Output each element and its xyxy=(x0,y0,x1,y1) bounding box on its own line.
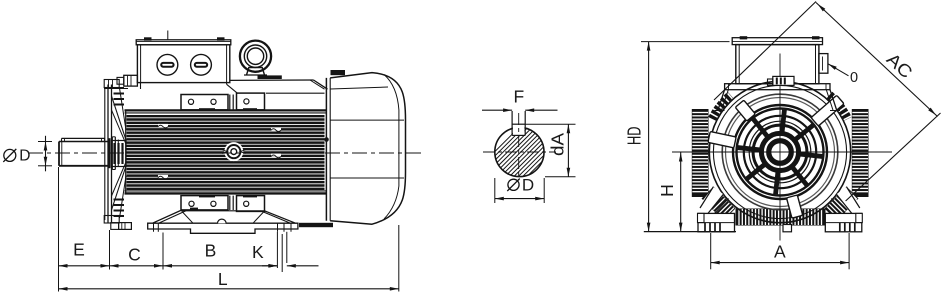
front view: inner grille circles xyxy=(744,116,816,188)
dimension HD xyxy=(625,42,730,232)
dimension AC diagonal xyxy=(714,2,941,202)
svg-text:L: L xyxy=(218,269,228,289)
side view: centre line xyxy=(28,152,424,154)
front view: rim vent band left xyxy=(692,110,708,197)
svg-text:K: K xyxy=(252,242,264,262)
side view: lifting eyebolt xyxy=(240,41,271,75)
front view: left foot gusset xyxy=(698,187,729,214)
front view: shaft circle xyxy=(771,143,790,162)
front view: rim vent band right xyxy=(852,110,868,197)
side view: drive-end bearing shield xyxy=(104,80,126,224)
dimension E xyxy=(59,240,110,268)
extension line shoulder face xyxy=(109,230,111,270)
side view: terminal box xyxy=(136,37,231,82)
side view: fan cover xyxy=(299,70,406,227)
front view: cowl vanes xyxy=(811,95,844,126)
side view: bottom mounting pad with two holes xyxy=(181,195,228,210)
extension line fan cover end xyxy=(398,225,400,292)
front view: rim vent band bottom xyxy=(736,209,825,225)
svg-text:B: B xyxy=(205,240,217,260)
svg-text:E: E xyxy=(73,240,85,260)
side view: central boss on stator xyxy=(222,142,246,161)
section view: keyway slot xyxy=(512,111,525,135)
dimension L xyxy=(59,269,399,291)
extension lines K slot xyxy=(277,232,286,272)
side view: conduit plug on box left xyxy=(117,75,137,86)
dimension C xyxy=(110,244,164,267)
front view: box support brackets xyxy=(715,90,841,111)
front view: left foot xyxy=(698,213,735,231)
front view: hub rings xyxy=(761,133,798,170)
side view: shield foot pad xyxy=(111,223,132,230)
front view: right foot gusset xyxy=(831,187,862,214)
svg-text:A: A xyxy=(774,241,786,261)
extension line foot front xyxy=(162,233,164,270)
side view: top mounting pad with two holes xyxy=(181,95,228,111)
front view: box base plate xyxy=(725,84,830,90)
side view: cable gland plugs on box xyxy=(157,31,211,76)
dimension K xyxy=(252,242,319,268)
side view: fin break marks xyxy=(158,124,281,179)
front view: top centre fitting xyxy=(768,76,795,85)
svg-text:dA: dA xyxy=(548,133,568,156)
front view: bottom centre tab xyxy=(783,225,792,232)
section view: centre lines xyxy=(483,113,556,181)
side view: bottom rear pad with one hole xyxy=(237,195,265,211)
svg-text:D: D xyxy=(19,148,30,165)
side view: shaft key xyxy=(62,138,105,141)
dimension O leader xyxy=(828,64,858,86)
dimension diameter D of section xyxy=(495,176,544,204)
dimension A xyxy=(711,233,849,269)
side view: top rear pad with one hole xyxy=(237,93,265,110)
side view: pad gap verticals xyxy=(230,95,233,111)
front view: gland plate O on box right xyxy=(819,54,828,74)
svg-text:HD: HD xyxy=(625,127,645,146)
front view: grille outer double ring xyxy=(733,105,827,199)
svg-text:D: D xyxy=(522,176,534,195)
front view: cowl seam circles xyxy=(722,94,838,210)
dimension line for shaft diameter D xyxy=(38,136,52,172)
side view: top ridge toward fan cover xyxy=(230,75,328,93)
front view: right foot xyxy=(825,213,862,231)
side view: bottom pad gap verticals xyxy=(230,196,233,210)
front view: rim vent band lower corners xyxy=(702,187,735,220)
side view: platform under box xyxy=(104,83,238,94)
front view: rim vent band upper corner arcs xyxy=(712,95,730,119)
dimension H xyxy=(657,153,683,232)
svg-text:0: 0 xyxy=(850,70,858,86)
svg-text:H: H xyxy=(657,184,677,197)
dimension F keyway width xyxy=(482,86,558,112)
dimension dA xyxy=(525,124,575,177)
dimension B xyxy=(163,240,277,267)
front view: grille spokes xyxy=(738,110,823,195)
section view: shaft circle with hatching xyxy=(465,112,653,181)
side view: finned stator body xyxy=(125,110,327,193)
svg-text:C: C xyxy=(128,244,141,264)
front view: ground line xyxy=(644,231,736,233)
dimension diameter D label left xyxy=(3,148,30,165)
extension line shaft end xyxy=(58,167,60,292)
side view: foot xyxy=(148,210,298,233)
side view: motor shaft xyxy=(59,142,110,166)
svg-text:F: F xyxy=(513,86,524,106)
front view: terminal box xyxy=(732,36,822,83)
side view: shaft shoulder and bearing cap xyxy=(110,137,119,170)
front view: centre lines xyxy=(672,54,892,241)
front view: outer circles xyxy=(709,81,850,222)
